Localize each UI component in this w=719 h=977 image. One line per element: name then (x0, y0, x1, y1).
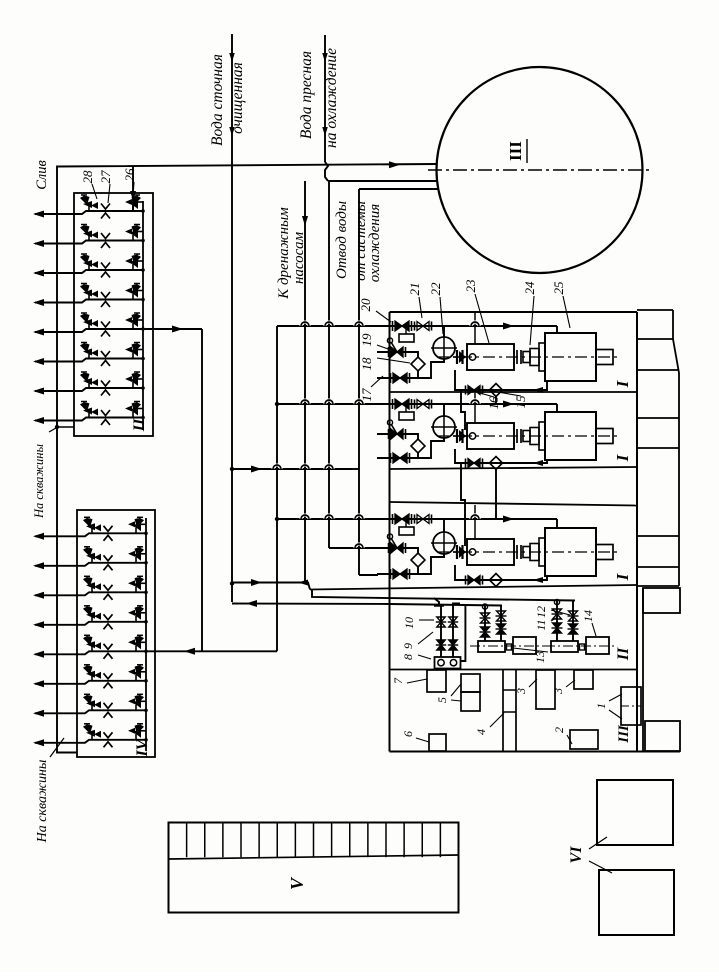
pipe jump at (329,519) (325, 515, 333, 519)
manifold IV row 5 arrow to well (33, 651, 44, 658)
manifold IV row 1 pipe (35, 533, 146, 536)
unit3 discharge row arrow (503, 516, 514, 523)
leader VI b (589, 861, 612, 873)
building: hall band separator 3 (310, 585, 637, 590)
manifold block II outline (74, 193, 153, 436)
manifold II row 6 flow chevron v (101, 351, 110, 357)
leader 11 (551, 618, 556, 621)
pipe: flow arrow on manifold II feed (172, 326, 183, 333)
svg-text:16: 16 (486, 396, 501, 410)
manifold II row 3 rail junction dot (141, 268, 145, 272)
pipe: drain stub unit2 diamond to row3 (495, 469, 497, 519)
pipe: main header to tank (Слив corner) (57, 164, 437, 753)
manifold IV row 6 pipe (35, 681, 146, 684)
svg-text:насосам: насосам (291, 232, 307, 284)
unit1 suction flange 1 (456, 350, 458, 364)
gallery lower wall stub (642, 588, 644, 752)
junction dot V57 drain stub (55, 425, 59, 429)
unit2 suction flange 2 (461, 429, 463, 443)
unit1 pump top stub (474, 313, 476, 344)
leader 2 (567, 735, 572, 744)
svg-text:22: 22 (428, 282, 443, 296)
manifold II row 4 pipe (35, 300, 143, 303)
drainage pump circle 2 (450, 660, 456, 666)
leader 13 (513, 648, 548, 652)
svg-text:5: 5 (435, 697, 449, 703)
manifold II row 3 flow chevron v (101, 263, 110, 269)
manifold II row 6 rail junction dot (141, 357, 145, 361)
unit1 ball-valve row pipe (377, 351, 412, 353)
leader 12 (551, 610, 570, 615)
unit3 motor shaft stub (596, 545, 613, 560)
manifold IV row 8 flow chevron ^ (104, 742, 113, 748)
unit3 pump body (467, 539, 514, 565)
unit1 flowmeter cross vertical (443, 334, 445, 362)
svg-text:8: 8 (401, 654, 415, 660)
manifold II row 1 valve left (83, 195, 85, 198)
manifold II row 7 flow chevron ^ (101, 390, 110, 396)
manifold II row 8 rail junction dot (141, 416, 145, 420)
manifold IV row 2 arrow to well (33, 562, 44, 569)
unit2 pump nose circle (469, 433, 475, 439)
unit1 coupling half 1 (523, 352, 530, 363)
manifold II row 1 flow chevron ^ (101, 213, 110, 219)
building: hall band separator 2 (390, 467, 638, 469)
pipe: riser V359 from header 3 (358, 189, 360, 575)
manifold II row 8 valve right (133, 408, 143, 410)
unit3 flowmeter cross vertical (443, 529, 445, 557)
pipe: cooling to unit3 ball row (329, 547, 377, 549)
aux motor1 body (513, 637, 536, 654)
unit3 pump-side flange a (516, 545, 518, 559)
manifold II row 2 pipe (35, 241, 143, 244)
leader 3b (566, 680, 575, 687)
svg-text:очищенная: очищенная (229, 62, 246, 134)
leader 7 (407, 679, 427, 683)
manifold IV row 6 rail junction dot (144, 679, 148, 683)
manifold II row 5 valve right (133, 319, 143, 321)
unit3 unit centerline (437, 551, 620, 553)
manifold II row 4 flow chevron v (101, 292, 110, 298)
drainage pump circle 1 (438, 660, 444, 666)
unit1 drop to check diamond (412, 352, 418, 357)
unit3 suction flange 1 (456, 545, 458, 559)
junction dot V232-H583 (230, 581, 234, 585)
aux pump2 suction drop a (556, 600, 558, 642)
unit3 drop to check diamond (412, 548, 418, 553)
gallery lower box 1 (643, 588, 680, 613)
unit3 gate valve (filled) (392, 514, 394, 524)
svg-text:Слив: Слив (34, 160, 50, 190)
unit3 riser to flowmeter (443, 519, 445, 532)
unit2 coupling half 1 (523, 431, 530, 442)
manifold IV row 3 rail junction dot (144, 591, 148, 595)
unit2 pump-side flange a (516, 429, 518, 443)
unit2 motor flange (539, 422, 545, 450)
unit1 motor shaft stub (596, 350, 613, 365)
manifold II row 7 pipe (35, 388, 143, 391)
aux pump2 suction drop b (572, 601, 574, 642)
unit1 pump-side flange b (520, 350, 522, 364)
unit2 discharge row pipe (277, 403, 557, 405)
equipment 3b box (574, 670, 593, 689)
unit2 suction pipe (453, 435, 467, 437)
manifold II row 4 valve left (83, 284, 85, 287)
building: hall band separator 3a (390, 502, 638, 506)
pipe: discharge header V277 to manifolds (276, 326, 278, 651)
leader 17 (371, 376, 383, 387)
junction dot V232-H469 (230, 467, 234, 471)
pipe: flow arrow on H469 (251, 466, 262, 473)
svg-text:Отвод воды: Отвод воды (334, 201, 350, 279)
manifold IV row 3 flow chevron v (104, 585, 113, 591)
manifold II row 5 pipe (35, 329, 143, 332)
aux pump2 valve a1 (552, 613, 563, 615)
manifold IV row 4 flow chevron ^ (104, 624, 113, 630)
leader 1b (609, 710, 622, 719)
building V window dividers (186, 823, 188, 858)
manifold IV row 5 flow chevron ^ (104, 653, 113, 659)
manifold IV row 7 flow chevron ^ (104, 712, 113, 718)
unit2 electric motor body (545, 412, 596, 460)
pipe: flow arrow fresh 2 (322, 127, 328, 136)
manifold II row 6 valve left (83, 343, 85, 346)
unit1 discharge riser (556, 326, 558, 333)
gallery rung y=418 (637, 417, 679, 419)
aux pump1 valve b2 (496, 628, 507, 630)
manifold IV row 4 valve left (86, 606, 88, 609)
unit2 pump body (467, 423, 514, 449)
unit1 drain diamond (490, 384, 503, 397)
pipe: manifold II feed line (143, 328, 202, 330)
unit1 coupling half 2 (530, 349, 539, 366)
equipment 1 box (621, 687, 641, 725)
svg-text:На скважины: На скважины (35, 760, 50, 844)
aux pump1 suction drop b (500, 606, 502, 642)
manifold II row 2 valve left (83, 225, 85, 228)
manifold II row 5 rail junction dot (141, 327, 145, 331)
building: machine hall left wall (389, 312, 391, 752)
svg-text:15: 15 (513, 395, 528, 409)
room II drainage stack feed (434, 598, 439, 606)
svg-text:24: 24 (522, 281, 537, 295)
leader 10 (419, 619, 434, 621)
aux drainage valve B1 (448, 621, 458, 623)
unit2 diamond to flowmeter link (418, 438, 444, 458)
unit2 ball valve (388, 429, 390, 439)
unit2 drain gate valve (465, 459, 467, 468)
unit3 check valve (outline) (414, 515, 416, 524)
aux pump2 body (551, 641, 578, 652)
building: machine hall top wall (390, 311, 638, 313)
manifold IV row 8 arrow to well (33, 739, 44, 746)
pipe: flow arrow on main header (389, 161, 400, 168)
pipe: line into pump house H583 (232, 583, 310, 590)
unit3 drain pipe (455, 565, 547, 580)
manifold IV row 6 valve left (86, 665, 88, 668)
svg-text:II: II (131, 418, 148, 432)
unit1 discharge row arrow (503, 323, 514, 330)
manifold IV row 3 flow chevron ^ (104, 594, 113, 600)
unit1 suction pipe (453, 356, 467, 358)
block VI upper square (597, 780, 673, 845)
manifold IV row 4 arrow to well (33, 621, 44, 628)
manifold IV row 3 arrow to well (33, 592, 44, 599)
building V outline (169, 823, 459, 913)
manifold IV row 7 valve right (136, 700, 146, 702)
unit2 ball-valve row pipe (377, 433, 412, 435)
leader 19 (377, 345, 391, 350)
svg-text:10: 10 (402, 617, 416, 629)
manifold IV row 7 flow chevron v (104, 703, 113, 709)
svg-text:VI: VI (568, 846, 585, 864)
unit1 check valve (outline) (414, 322, 416, 331)
pipe: flow arrow fresh 1 (322, 53, 328, 62)
aux pump2 valve b2 (568, 628, 579, 630)
unit2 bypass stem (405, 404, 407, 412)
manifold IV row 2 valve left (86, 547, 88, 550)
manifold IV row 2 flow chevron v (104, 555, 113, 561)
manifold II row 6 pipe (35, 359, 143, 362)
unit1 diamond to flowmeter link (418, 359, 444, 378)
unit3 flowmeter cross horizontal (431, 542, 457, 544)
manifold IV row 7 valve left (86, 694, 88, 697)
svg-text:17: 17 (359, 388, 374, 402)
unit3 pump-side flange b (520, 545, 522, 559)
aux drainage valve A1 (436, 621, 446, 623)
aux pump1 top circle (482, 604, 487, 609)
manifold IV row 2 valve right (136, 553, 146, 555)
aux drainage link vertical (460, 606, 465, 662)
aux pump2 valve a2 (552, 627, 563, 629)
manifold II row 1 arrow to well (33, 211, 44, 218)
aux pump1 coupling (507, 644, 512, 650)
gallery rung y=370 (637, 369, 679, 371)
svg-text:3: 3 (551, 688, 565, 695)
leader 16 (473, 391, 494, 397)
svg-text:19: 19 (359, 333, 374, 347)
manifold II row 7 valve left (83, 372, 85, 375)
aux pump1 suction drop a (484, 605, 486, 641)
unit1 pump nose circle (469, 354, 475, 360)
unit3 coupling half 1 (523, 547, 530, 558)
unit3 electric motor body (545, 528, 596, 576)
svg-text:23: 23 (463, 279, 478, 293)
manifold IV row 1 rail junction dot (144, 532, 148, 536)
manifold II row 7 flow chevron v (101, 381, 110, 387)
gallery rung y=310 (637, 309, 673, 311)
unit2 check valve (outline) (414, 400, 416, 409)
gallery lower box 2 (645, 721, 680, 751)
svg-text:6: 6 (401, 731, 415, 737)
pipe: flow arrow on V305 (302, 216, 308, 226)
leader 18 (377, 358, 410, 363)
unit2 discharge riser (556, 404, 558, 412)
pipe: line out of pump house H602 (232, 603, 390, 606)
aux drainage valve line A (440, 606, 442, 657)
manifold IV row 1 flow chevron v (104, 526, 113, 532)
leader 26 (133, 182, 134, 196)
drainage twin pump box (435, 657, 461, 669)
manifold IV row 2 pipe (35, 563, 146, 566)
aux valve T-bar A (434, 605, 444, 607)
pipe jump at (359,548) (355, 544, 363, 548)
equipment 7 box (427, 670, 446, 692)
leader 24 (530, 296, 534, 345)
corridor step 2 (503, 711, 516, 713)
pipe: cooling return riser V329 (328, 181, 330, 548)
manifold IV row 1 valve right (136, 523, 146, 525)
leader 5a (451, 684, 461, 696)
leader 21 (419, 297, 422, 318)
unit3 lower valve row pipe (377, 573, 431, 575)
unit2 flowmeter cross vertical (443, 413, 445, 441)
leader 25 (563, 296, 570, 328)
pipe: flow arrow on manifold IV feed (184, 648, 195, 655)
manifold II row 6 flow chevron ^ (101, 361, 110, 367)
unit1 drain arrow (533, 387, 543, 393)
pipe: cooling return collector H469 (232, 468, 352, 470)
building: machine hall right wall (636, 312, 638, 752)
unit3 discharge riser (556, 519, 558, 528)
unit2 drain pipe (455, 449, 547, 463)
aux drainage valve line B (453, 604, 460, 658)
svg-text:7: 7 (391, 677, 405, 684)
unit2 motor shaft stub (596, 429, 613, 444)
unit3 ball-valve row pipe (377, 547, 412, 549)
label leader (lower на скважины) (50, 738, 64, 757)
manifold IV row 6 flow chevron v (104, 673, 113, 679)
svg-text:III: III (616, 724, 632, 744)
unit1 suction flange 2 (461, 350, 463, 364)
aux set2 centerline (545, 645, 616, 647)
manifold II row 1 valve right (133, 201, 143, 203)
manifold II row 3 valve right (133, 260, 143, 262)
leader 15 (492, 391, 521, 396)
equipment 6 box (429, 734, 446, 751)
aux motor2 body (586, 637, 609, 654)
equipment 3a box (536, 670, 555, 709)
unit2 pump-side flange b (520, 429, 522, 443)
svg-text:V: V (287, 876, 307, 890)
pipe: fresh water supply line (Вода пресная) (324, 35, 326, 162)
unit1 ball valve (388, 347, 390, 357)
equipment 5 box a (461, 674, 480, 692)
gallery rung y=586 (637, 585, 679, 587)
gallery rung y=536 (637, 535, 679, 537)
pipe jump at (359,326) (355, 322, 363, 326)
unit3 flowmeter circle (433, 532, 455, 554)
svg-text:28: 28 (80, 170, 95, 184)
unit2 coupling half 2 (530, 428, 539, 445)
unit1 motor flange (539, 343, 545, 371)
block VI lower square (599, 870, 674, 935)
manifold block IV outline (77, 510, 155, 757)
pipe: waste water line (Вода сточная) (231, 34, 233, 602)
manifold II row 1 rail junction dot (141, 209, 145, 213)
equipment 5 box b (461, 692, 480, 711)
leader 4 (490, 713, 504, 727)
unit2 drain diamond (490, 457, 503, 470)
equipment 2 box (570, 730, 598, 749)
svg-text:21: 21 (407, 283, 422, 296)
unit1 suction cone (459, 351, 466, 363)
unit3 coupling half 2 (530, 544, 539, 561)
manifold IV row 4 pipe (35, 622, 146, 625)
building V window band line (169, 855, 459, 859)
svg-text:3: 3 (514, 688, 528, 695)
pipe: fresh water jog across header (325, 162, 328, 181)
svg-text:26: 26 (122, 168, 137, 182)
building: room II/III separator (390, 669, 638, 671)
leader 3a (529, 679, 537, 687)
aux drainage valve A2 (436, 644, 446, 646)
manifold II row 3 arrow to well (33, 270, 44, 277)
svg-text:Вода пресная: Вода пресная (298, 51, 315, 139)
unit2 unit centerline (437, 435, 620, 437)
leader 6 (416, 738, 429, 742)
unit2 check diamond (411, 439, 425, 453)
pipe jump at (277,469) (273, 465, 281, 469)
gallery outer wall (673, 310, 679, 586)
manifold II row 7 arrow to well (33, 388, 44, 395)
unit1 electric motor body (545, 333, 596, 381)
manifold II drain stub (57, 426, 74, 428)
manifold II row 8 flow chevron v (101, 410, 110, 416)
manifold IV row 2 flow chevron ^ (104, 565, 113, 571)
manifold IV row 7 arrow to well (33, 710, 44, 717)
unit2 flowmeter circle (433, 416, 455, 438)
leader 14 (592, 623, 596, 636)
unit3 ball valve (388, 543, 390, 553)
unit3 diamond to flowmeter link (418, 554, 444, 574)
svg-text:14: 14 (581, 610, 595, 622)
unit3 lower gate valve (390, 569, 392, 579)
room II pipe P2 (cont. of H602) (390, 604, 502, 606)
manifold IV feed rail (145, 518, 147, 751)
svg-text:на охлаждение: на охлаждение (323, 48, 340, 148)
manifold IV row 3 valve left (86, 576, 88, 579)
unit2 drain arrow (533, 460, 543, 466)
leader 22 (440, 297, 443, 334)
unit2 suction flange 1 (456, 429, 458, 443)
manifold IV row 1 arrow to well (33, 533, 44, 540)
leader VI a (589, 837, 607, 849)
unit2 bypass box (399, 412, 414, 420)
tank III centerline (428, 169, 652, 171)
manifold II row 7 rail junction dot (141, 386, 145, 390)
manifold II row 4 valve right (133, 290, 143, 292)
svg-text:1: 1 (594, 703, 608, 709)
manifold IV row 8 rail junction dot (144, 738, 148, 742)
unit3 discharge row pipe (277, 518, 557, 520)
corridor wall a (502, 670, 504, 752)
pipe jump at (305,519) (301, 515, 309, 519)
unit3 bypass stem (405, 519, 407, 527)
unit3 pump top stub (474, 505, 476, 539)
aux pump2 coupling (580, 644, 585, 650)
leader 27 (108, 184, 110, 203)
pipe: flow arrow on H583 (251, 579, 262, 586)
svg-text:охлаждения: охлаждения (367, 204, 383, 282)
gallery rung y=567 (637, 566, 679, 568)
svg-text:4: 4 (474, 729, 488, 735)
unit2 riser to flowmeter (443, 404, 445, 416)
svg-text:III: III (506, 141, 525, 161)
manifold II row 4 flow chevron ^ (101, 302, 110, 308)
unit3 pump nose circle (469, 549, 475, 555)
manifold II row 5 flow chevron v (101, 322, 110, 328)
